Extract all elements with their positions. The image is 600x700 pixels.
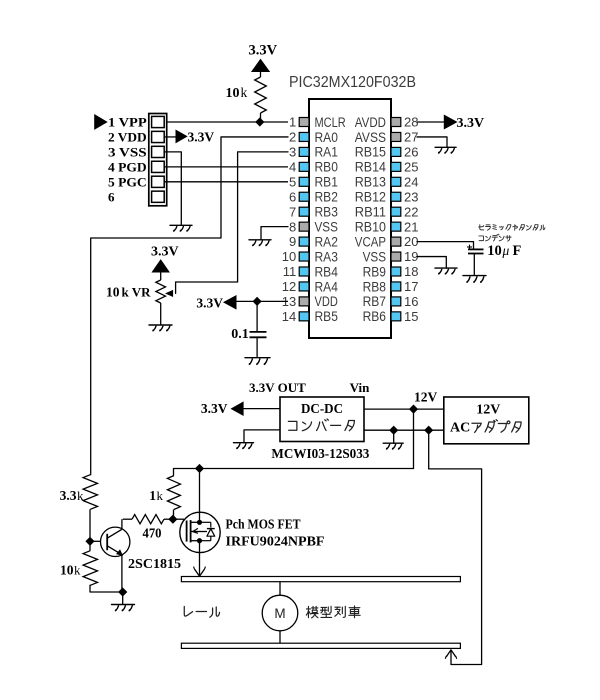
svg-text:RA1: RA1 [315, 145, 338, 160]
power arrow 3.3V right (AVDD) [444, 115, 456, 128]
IC pin 14 pad (RB5) [299, 312, 309, 321]
Q2 top lead [199, 512, 201, 522]
IC pin 28 pad (AVDD) [391, 118, 401, 127]
ground (emitter) [112, 605, 135, 611]
note text: capacitor [479, 236, 483, 241]
connector J1 pin 5 square [152, 176, 165, 187]
IC pin 15 pad (RB6) [391, 312, 401, 321]
svg-text:Pch MOS FET: Pch MOS FET [226, 517, 301, 532]
svg-text:AVSS: AVSS [355, 130, 386, 145]
wire to ground [393, 430, 395, 443]
svg-text:VDD: VDD [315, 294, 339, 309]
transistor Q1 2SC1815 [101, 527, 130, 556]
IC pin 22 pad (RB11) [391, 207, 401, 216]
node emitter junction [118, 587, 127, 596]
arrowhead to bottom rail [447, 650, 456, 657]
wire [173, 469, 175, 476]
svg-text:k: k [77, 488, 84, 503]
VR wiper arrow [166, 291, 172, 297]
IC pin 21 pad (RB10) [391, 222, 401, 231]
connector J1 outline [149, 114, 167, 206]
arrow into pin1 VPP [95, 115, 107, 129]
svg-text:4: 4 [289, 159, 296, 174]
svg-text:VSS: VSS [363, 249, 386, 264]
svg-text:28: 28 [404, 115, 418, 130]
wire [260, 72, 262, 78]
svg-text:470: 470 [143, 526, 162, 541]
svg-text:k VR: k VR [122, 285, 152, 300]
wire gate [173, 518, 184, 520]
svg-text:3.3V: 3.3V [457, 116, 485, 131]
label rail (katakana) [184, 607, 192, 617]
IC pin 24 pad (RB13) [391, 177, 401, 186]
svg-text:12: 12 [282, 279, 296, 294]
connector J1 pin 4 square [152, 161, 165, 172]
module PS1 DC-DC converter box [280, 397, 364, 442]
connector J1 pin 6 square [152, 191, 165, 202]
svg-text:0.1: 0.1 [231, 327, 249, 342]
module PS2 12V AC adapter box [444, 397, 529, 444]
node base junction [85, 537, 94, 546]
svg-text:17: 17 [404, 279, 418, 294]
IC pin 13 pad (VDD) [299, 297, 309, 306]
svg-text:3: 3 [289, 145, 296, 160]
ground (C2) [463, 276, 486, 283]
wire rail to motor [279, 582, 281, 596]
IC pin 3 pad (RA1) [299, 147, 309, 156]
node VDD junction [253, 297, 262, 306]
wire RA1 to VR wiper [176, 152, 288, 294]
capacitor C1 0.1uF bottom plate [250, 336, 267, 338]
IC pin 1 pad (MCLR) [299, 118, 309, 127]
capacitor C2 10uF bottom plate [468, 253, 484, 255]
note text: ceramic or tantalum [479, 225, 484, 230]
svg-text:3.3V: 3.3V [196, 295, 223, 310]
svg-text:12V: 12V [476, 403, 500, 418]
svg-text:3.3V: 3.3V [201, 401, 228, 416]
svg-text:22: 22 [404, 204, 418, 219]
svg-text:DC-DC: DC-DC [301, 402, 343, 417]
IC pin 2 pad (RA0) [299, 132, 309, 141]
node rail return junction [424, 426, 433, 435]
svg-text:2SC1815: 2SC1815 [128, 556, 181, 571]
wire return to bottom rail [429, 430, 482, 664]
svg-text:RB6: RB6 [363, 309, 386, 324]
IC pin 16 pad (RB7) [391, 297, 401, 306]
svg-text:15: 15 [404, 309, 418, 324]
svg-text:1 VPP: 1 VPP [108, 115, 147, 130]
wire [122, 592, 124, 605]
svg-text:4 PGD: 4 PGD [108, 159, 147, 174]
svg-text:RA4: RA4 [315, 279, 339, 294]
wire VCAP to C2 [417, 242, 474, 250]
label model train (kanji) [306, 606, 318, 618]
svg-text:23: 23 [404, 189, 418, 204]
svg-text:18: 18 [404, 264, 418, 279]
svg-text:5: 5 [289, 174, 296, 189]
Q1 base bar [106, 534, 108, 550]
wire [200, 521, 211, 523]
arrowhead to top rail [195, 570, 204, 577]
svg-text:10: 10 [226, 86, 240, 101]
wire 12V to Q2 source [199, 469, 201, 513]
svg-text:RB2: RB2 [315, 190, 338, 205]
IC pin 4 pad (RB0) [299, 162, 309, 171]
IC pin 8 pad (VSS) [299, 222, 309, 231]
connector J1 pin 1 square [152, 116, 165, 127]
wire Vin 12V [364, 408, 444, 410]
svg-text:RB8: RB8 [363, 279, 386, 294]
IC pin 25 pad (RB14) [391, 162, 401, 171]
wire VDD pin13 [236, 300, 288, 302]
svg-text:5 PGC: 5 PGC [108, 174, 147, 189]
connector J1 pin 3 square [152, 146, 165, 157]
wire [256, 337, 258, 357]
svg-text:27: 27 [404, 130, 418, 145]
IC pin 26 pad (RB15) [391, 147, 401, 156]
svg-text:3.3V: 3.3V [151, 244, 179, 259]
wire [173, 510, 175, 520]
IC pin 12 pad (RA4) [299, 282, 309, 291]
wire PGC to pin5 [164, 181, 288, 183]
wire [89, 541, 91, 550]
svg-text:RB1: RB1 [315, 175, 338, 190]
svg-text:3.3V OUT: 3.3V OUT [249, 380, 306, 395]
svg-text:RB14: RB14 [355, 160, 387, 175]
svg-text:26: 26 [404, 145, 418, 160]
Q2 body diode cathode bar [207, 528, 215, 530]
svg-text:RB0: RB0 [315, 160, 338, 175]
wire Q2 drain to rail [199, 553, 201, 576]
power arrow 3.3V up [252, 60, 269, 72]
IC pin 20 pad (VCAP) [391, 237, 401, 246]
resistor R 10k pullup [255, 77, 267, 113]
ground (DC-DC) [234, 443, 254, 449]
svg-text:RB10: RB10 [355, 219, 386, 234]
ground (connector VSS) [170, 225, 192, 231]
Q2 body diode lead [210, 522, 212, 527]
svg-text:9: 9 [289, 234, 296, 249]
wire to C1 [256, 301, 258, 332]
label converter (katakana) [288, 421, 297, 430]
connector J1 pin 2 square [152, 131, 165, 142]
svg-text:11: 11 [283, 264, 297, 279]
svg-text:19: 19 [404, 249, 418, 264]
IC pin 19 pad (VSS) [391, 252, 401, 261]
svg-text:2 VDD: 2 VDD [108, 130, 147, 145]
wire pin8 VSS to ground [261, 227, 288, 240]
IC pin 7 pad (RB3) [299, 207, 309, 216]
Q2 body arrow [193, 529, 198, 534]
svg-text:VCAP: VCAP [355, 234, 386, 249]
svg-text:VSS: VSS [315, 219, 338, 234]
svg-text:3.3V: 3.3V [188, 130, 215, 145]
svg-text:RA2: RA2 [315, 234, 338, 249]
power arrow 3.3V left (VDD) [224, 296, 236, 309]
Q2 bottom lead [199, 541, 201, 553]
svg-text:7: 7 [289, 204, 296, 219]
svg-text:RB15: RB15 [355, 145, 386, 160]
svg-text:M: M [274, 606, 285, 621]
svg-text:8: 8 [289, 219, 296, 234]
wire pin19 VSS to ground [417, 257, 446, 269]
IC pin 5 pad (RB1) [299, 177, 309, 186]
rail (top) [181, 577, 460, 582]
svg-text:RB12: RB12 [355, 190, 386, 205]
svg-text:k: k [74, 563, 81, 578]
svg-text:3.3: 3.3 [60, 488, 77, 503]
svg-text:RB9: RB9 [363, 264, 386, 279]
power arrow 3.3V left (DC-DC) [232, 402, 244, 415]
svg-text:RA0: RA0 [315, 130, 338, 145]
resistor R 470 base-gate [132, 515, 164, 524]
wire PGD to pin4 [164, 166, 288, 168]
svg-text:Vin: Vin [350, 380, 371, 395]
capacitor C2 10uF top plate [468, 248, 484, 250]
svg-text:PIC32MX120F032B: PIC32MX120F032B [289, 74, 416, 91]
MOSFET Q2 IRFU9024NPBF [180, 512, 220, 552]
node gate junction [168, 515, 177, 524]
Q1 emitter stroke [107, 546, 119, 553]
svg-text:20: 20 [404, 234, 418, 249]
Q1 emitter arrow [117, 550, 122, 555]
wire DC-DC GND [244, 430, 280, 443]
wire DC-DC output [243, 408, 280, 410]
wire [160, 272, 162, 280]
rail (bottom) [181, 643, 460, 648]
svg-text:AC: AC [450, 421, 470, 436]
wire [123, 518, 132, 520]
svg-text:MCWI03-12S033: MCWI03-12S033 [271, 446, 369, 461]
svg-text:k: k [241, 85, 248, 100]
label adapter (katakana) [472, 423, 481, 432]
Q2 gate bar [186, 521, 188, 542]
wire 12V down to FET source rail [174, 409, 414, 468]
IC pin 17 pad (RB8) [391, 282, 401, 291]
wire VSS to ground [164, 152, 181, 225]
svg-text:6: 6 [289, 189, 296, 204]
node GND junction [389, 426, 398, 435]
IC pin 27 pad (AVSS) [391, 132, 401, 141]
IC pin 23 pad (RB12) [391, 192, 401, 201]
svg-text:RB5: RB5 [315, 309, 338, 324]
wire MCLR to pin1 [167, 121, 288, 123]
ground (VR) [149, 325, 172, 331]
resistor R 10k (base-emitter) [83, 551, 97, 586]
IC pin 10 pad (RA3) [299, 252, 309, 261]
svg-text:RB11: RB11 [355, 205, 386, 220]
svg-text:k: k [157, 488, 164, 503]
svg-text:2: 2 [289, 130, 296, 145]
IC pin 18 pad (RB9) [391, 267, 401, 276]
C2 plus sign [467, 246, 472, 248]
svg-text:μ: μ [502, 243, 510, 258]
wire collector up [121, 519, 123, 529]
resistor R 3.3k [83, 475, 97, 510]
ground (C1) [245, 358, 270, 365]
wire 10k to emitter [90, 585, 123, 592]
wire AVDD [417, 121, 444, 123]
svg-text:RB7: RB7 [363, 294, 386, 309]
wire DC-DC minus to adapter [364, 429, 444, 431]
ground (AVSS) [435, 147, 456, 153]
Q2 source stroke bottom [191, 540, 199, 542]
ground (pin8 VSS) [249, 240, 271, 246]
svg-text:RB4: RB4 [315, 264, 339, 279]
svg-text:14: 14 [282, 309, 296, 324]
wire motor to rail [279, 631, 281, 643]
svg-text:24: 24 [404, 174, 418, 189]
IC U1 body [309, 99, 391, 338]
IC pin 11 pad (RB4) [299, 267, 309, 276]
IC pin 9 pad (RA2) [299, 237, 309, 246]
power arrow 3.3V at VDD [176, 130, 187, 142]
power arrow 3.3V up (VR) [152, 260, 169, 272]
wire [164, 518, 173, 520]
wire base [90, 540, 101, 542]
node MCLR junction [255, 117, 264, 126]
svg-text:16: 16 [404, 294, 418, 309]
svg-text:25: 25 [404, 159, 418, 174]
potentiometer VR1 10k body [156, 280, 166, 303]
node FET source junction [195, 464, 204, 473]
svg-text:10: 10 [487, 243, 502, 259]
node 12V [409, 405, 418, 414]
Q2 body stroke [191, 531, 207, 533]
svg-text:RB13: RB13 [355, 175, 386, 190]
wire VDD to 3.3V [164, 136, 176, 138]
wire [200, 540, 211, 542]
Q2 body diode triangle [207, 529, 215, 536]
svg-text:MCLR: MCLR [315, 115, 346, 130]
wire [260, 113, 262, 122]
ground (pin19 VSS) [435, 268, 457, 274]
wire [473, 254, 475, 276]
wire [89, 509, 91, 541]
svg-text:F: F [513, 243, 522, 259]
IC pin 6 pad (RB2) [299, 192, 309, 201]
ground (12V minus) [383, 443, 403, 449]
svg-text:RB3: RB3 [315, 205, 338, 220]
wire AVSS to ground [417, 137, 447, 147]
svg-text:6: 6 [108, 189, 115, 204]
Q2 drain stroke top [191, 521, 199, 523]
wire RA0 to voltage divider [91, 137, 288, 475]
svg-text:12V: 12V [414, 390, 438, 405]
svg-text:3.3V: 3.3V [249, 43, 278, 59]
svg-text:10: 10 [60, 563, 74, 578]
svg-text:21: 21 [404, 219, 418, 234]
svg-text:IRFU9024NPBF: IRFU9024NPBF [226, 534, 325, 549]
Q1 collector stroke [107, 529, 122, 538]
capacitor C1 0.1uF top plate [250, 331, 267, 333]
svg-text:AVDD: AVDD [355, 115, 386, 130]
wire [160, 303, 162, 325]
wire emitter down [121, 555, 123, 592]
resistor R 1k gate pullup [167, 476, 180, 510]
Q2 channel bar [190, 520, 192, 542]
svg-text:3 VSS: 3 VSS [108, 145, 147, 160]
svg-text:1: 1 [289, 115, 296, 130]
svg-text:10: 10 [282, 249, 296, 264]
svg-text:RA3: RA3 [315, 249, 338, 264]
svg-text:10: 10 [106, 285, 120, 300]
svg-text:1: 1 [149, 488, 156, 503]
